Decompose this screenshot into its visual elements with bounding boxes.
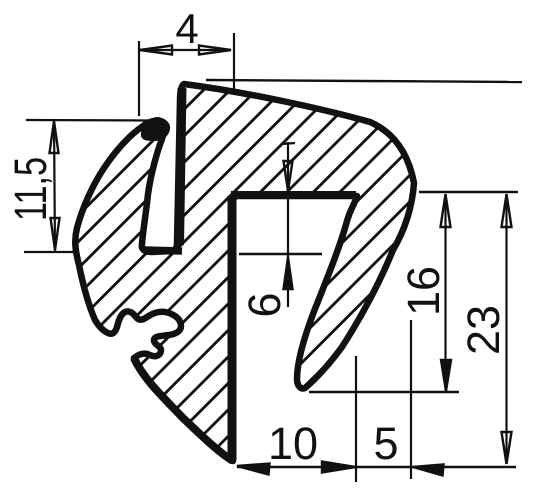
dimension 23: label (458, 305, 509, 355)
dimension 4: extension line right (233, 33, 235, 90)
svg-text:6: 6 (239, 292, 290, 317)
svg-text:5: 5 (373, 418, 398, 469)
glass reference line (206, 80, 522, 82)
svg-text:11,5: 11,5 (5, 157, 56, 221)
dimension 6: top tick (282, 143, 295, 144)
dimension 16: label (398, 266, 449, 316)
svg-text:4: 4 (175, 5, 198, 52)
dimension 4: left arrow (140, 46, 172, 55)
dimension 6: label (239, 292, 290, 317)
dimension 11,5: top extension line (26, 119, 150, 122)
bottom dimension line (237, 466, 516, 468)
dimension 16: dimension line (444, 194, 446, 390)
dimension 23: dimension line (505, 194, 507, 464)
dimension 4: right arrow (199, 46, 231, 55)
top extension line for 16 and 23 (419, 191, 518, 194)
dimension 10: label (268, 418, 318, 469)
dimension 4: extension line left (138, 41, 140, 116)
dimension 4: dimension line (140, 49, 231, 51)
channel left edge (heavy) (228, 196, 237, 460)
slot bottom edge (heavy) (144, 250, 182, 251)
dimension 6: lower arrow (up) (284, 257, 293, 289)
body left edge (heavy) (180, 88, 183, 245)
profile outline (75, 84, 414, 461)
dimension 6: inner reference line (239, 253, 322, 256)
extension line x411 (410, 320, 412, 479)
svg-text:16: 16 (398, 266, 449, 316)
dimension 11,5: bottom arrow (51, 218, 60, 250)
dimension 11,5: top arrow (50, 121, 59, 153)
dimension 16: bottom arrow (down, filled) (441, 360, 451, 391)
seal profile cross-section body (75, 84, 414, 461)
extension line x356 (355, 356, 357, 482)
channel top edge (heavy) (231, 191, 356, 199)
dimension 10: left arrow (filled) (237, 464, 270, 475)
bottom outline (heavy) (134, 358, 233, 461)
lobe tip (142, 118, 169, 140)
dimension 23: bottom arrow (down) (502, 432, 512, 464)
dimension 11,5: dimension line (54, 120, 55, 252)
dimension 23: top arrow (up) (502, 194, 512, 227)
dimension 4: label (175, 5, 198, 52)
dimension 10: right arrow (filled) (322, 462, 356, 473)
dimension 5: label (373, 418, 398, 469)
dimension 16: bottom extension line (309, 391, 459, 393)
dimension 16: top arrow (up) (441, 194, 451, 227)
dimension 11,5: label (5, 157, 56, 221)
svg-text:10: 10 (268, 418, 318, 469)
dimension 6: dimension line (287, 142, 289, 307)
dimension 11,5: bottom extension line (24, 251, 76, 253)
dimension 6: upper arrow (down) (284, 161, 293, 191)
svg-text:23: 23 (458, 305, 509, 355)
dimension 5: right arrow (filled) (413, 465, 444, 476)
